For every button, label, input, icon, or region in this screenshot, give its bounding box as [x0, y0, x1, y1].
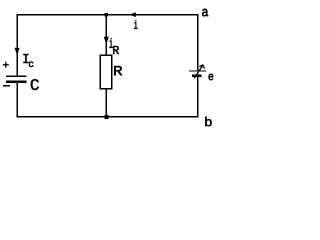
- junction dot top (node where resistor branch taps top rail): [105, 13, 109, 17]
- resistor R body: [100, 55, 112, 89]
- current arrow I_c (downward, on left wire): [15, 48, 19, 55]
- current arrow i (leftward, on top rail): [130, 13, 136, 17]
- node a label: [202, 9, 208, 16]
- label R (resistor value): [114, 66, 122, 75]
- wire bottom rail (node b): [16, 116, 198, 118]
- wire resistor branch lower (resistor to bottom rail): [105, 89, 107, 117]
- label i (of i_R): [110, 38, 113, 48]
- label i (top wire current): [134, 20, 137, 29]
- capacitor C bottom plate: [6, 81, 27, 83]
- node b label: [205, 117, 211, 126]
- label R subscript (of i_R): [113, 46, 119, 54]
- junction dot bottom (resistor branch to bottom rail): [104, 115, 108, 119]
- wire left lower (capacitor bottom plate to bottom rail): [16, 82, 18, 118]
- wire right upper (node a to source top plate): [197, 14, 199, 71]
- source e EMF arrow shaft (diagonal): [194, 65, 203, 78]
- wire left upper (top rail to capacitor top plate): [16, 14, 18, 76]
- label I (of I_c): [24, 54, 29, 63]
- polarity - (capacitor bottom plate): [3, 85, 10, 87]
- wire resistor branch upper (junction to resistor): [105, 15, 107, 56]
- wire right lower (source bottom plate to node b): [197, 76, 199, 118]
- source e EMF arrow head: [199, 65, 204, 69]
- label C (capacitor value): [31, 79, 39, 90]
- capacitor C top plate: [6, 75, 27, 77]
- source e bottom plate (short thick): [192, 74, 202, 76]
- source e top plate (long thin): [189, 70, 206, 72]
- current arrow i_R (downward, on resistor branch): [104, 37, 108, 44]
- label c subscript (of I_c): [29, 62, 33, 68]
- label e (source value): [209, 74, 214, 80]
- wire top rail (node a): [16, 14, 198, 16]
- polarity + (capacitor top plate): [3, 62, 9, 68]
